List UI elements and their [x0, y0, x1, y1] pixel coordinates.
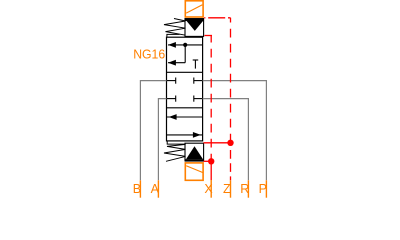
pilot line Z top horizontal dashed: [204, 17, 230, 19]
port stub Z (orange): [230, 180, 232, 197]
section2 blocked port left-bottom: [167, 96, 176, 102]
section3 flow line to left: [167, 114, 203, 120]
top pilot box armature bar: [185, 18, 204, 21]
svg-text:X: X: [204, 182, 213, 196]
port stub R (orange): [247, 180, 249, 197]
pilot line X vertical dashed: [210, 36, 212, 162]
top spring seat shelf: [167, 34, 180, 36]
pilot line Z horizontal solid: [204, 142, 231, 144]
top spring: [164, 19, 186, 36]
pilot line X solid lower: [210, 161, 212, 180]
port stub A (orange): [157, 180, 159, 197]
port stub X (orange): [210, 180, 212, 198]
bottom spring: [164, 144, 186, 161]
bottom pilot box armature bar: [185, 159, 204, 161]
bottom pilot box: [185, 143, 204, 160]
position divider 2: [167, 107, 203, 109]
section3 flow line to right: [167, 132, 203, 138]
port stub B (orange): [139, 180, 141, 197]
port stub P (orange): [265, 180, 267, 197]
bottom spring seat shelf: [167, 141, 186, 144]
section2 blocked port left-top: [167, 78, 176, 84]
proportional solenoid top (orange box with diagonal): [185, 1, 203, 17]
position divider 1: [167, 71, 203, 73]
top pilot triangle (down): [187, 21, 203, 31]
section1 blocked port: [193, 60, 199, 69]
junction dot X: [208, 158, 214, 164]
pilot line Z lower dashed: [230, 143, 232, 181]
svg-text:A: A: [151, 182, 160, 196]
port A wire (gray): [158, 99, 166, 181]
svg-text:NG16: NG16: [133, 48, 165, 62]
section2 blocked port right-top: [194, 78, 203, 84]
pilot line X top horizontal: [205, 35, 213, 37]
bottom pilot triangle (up): [186, 146, 203, 159]
section1 flow line upper: [168, 42, 203, 48]
section1 vertical link: [184, 45, 186, 63]
port B wire (gray): [140, 81, 166, 181]
svg-text:B: B: [133, 182, 141, 196]
pilot line X horizontal solid: [204, 160, 212, 162]
section1 flow line lower with arrow: [168, 60, 185, 66]
pilot line Z vertical dashed: [230, 18, 232, 143]
section2 blocked port right-bottom: [194, 96, 203, 102]
port R wire (gray): [203, 99, 249, 181]
valve body outline: [167, 37, 203, 141]
section1 junction dot: [183, 43, 187, 47]
top pilot box: [185, 19, 204, 37]
svg-text:Z: Z: [223, 182, 231, 196]
svg-text:R: R: [240, 182, 249, 196]
port P wire (gray): [203, 81, 267, 181]
junction dot Z: [227, 140, 233, 146]
svg-text:P: P: [259, 182, 267, 196]
proportional solenoid bottom (orange box with diagonal): [185, 163, 203, 180]
